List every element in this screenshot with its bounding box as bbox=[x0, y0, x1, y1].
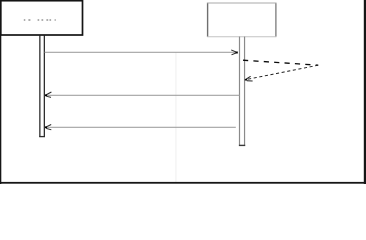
self message M2 outgoing dashed line bbox=[243, 60, 318, 65]
self message M2 return dashed line bbox=[246, 65, 318, 79]
page guide line bbox=[175, 52, 176, 182]
message M4 line (O2 to O1) bbox=[47, 126, 236, 128]
object box O2 bbox=[207, 3, 276, 37]
message M1 line (O1 to O2) bbox=[45, 51, 236, 53]
message M1 arrowhead bbox=[231, 50, 238, 55]
lifeline activation bar A1 (under O1) bbox=[39, 36, 45, 138]
frame left edge bbox=[0, 0, 1, 184]
frame bottom edge bbox=[0, 182, 366, 184]
message M3 line (O2 to O1) bbox=[47, 94, 240, 96]
object box O1 bbox=[1, 1, 83, 35]
lifeline activation bar A2 (under O2) bbox=[239, 37, 245, 146]
message M3 arrowhead bbox=[45, 92, 51, 97]
message M4 arrowhead bbox=[45, 125, 51, 130]
frame right edge bbox=[364, 0, 366, 184]
object O1 label text dots bbox=[24, 19, 56, 20]
self message M2 arrowhead bbox=[245, 76, 253, 81]
